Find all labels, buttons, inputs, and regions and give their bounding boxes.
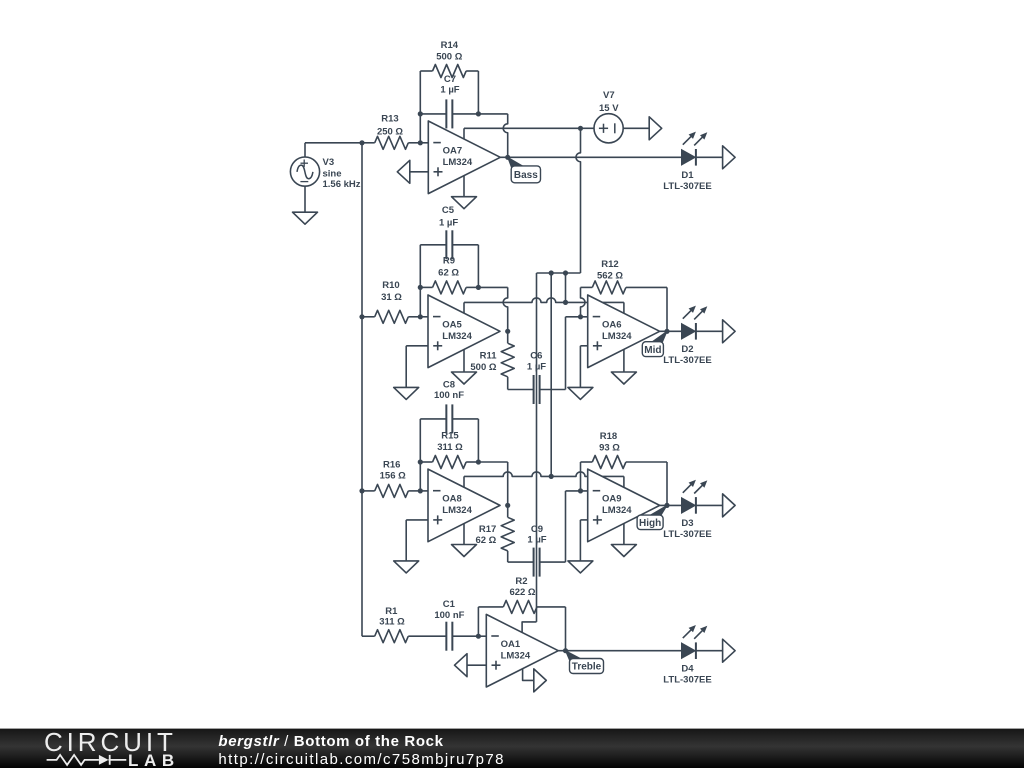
ground below OA5 <box>452 372 477 384</box>
ground at OA8 + input <box>394 561 419 573</box>
svg-text:R12: R12 <box>601 259 618 270</box>
svg-text:62 Ω: 62 Ω <box>475 535 496 546</box>
node OA1 inverting input junction <box>476 634 481 639</box>
wire OA8 V- stub <box>463 524 465 545</box>
junction R12 left at OA6 input <box>578 314 583 319</box>
flag at OA1 V- pin <box>523 669 547 692</box>
node bus/R16 <box>359 488 364 493</box>
svg-text:LAB: LAB <box>128 751 180 768</box>
junction R15 right <box>476 459 481 464</box>
svg-text:OA8: OA8 <box>442 494 462 505</box>
wire OA7 V- stub <box>463 176 465 197</box>
junction C7 left <box>418 111 423 116</box>
resistor R16 156 Ohm <box>362 459 420 497</box>
node OA9 output <box>664 503 669 508</box>
resistor R1 311 Ohm <box>362 606 446 643</box>
ground at OA9 + input <box>568 561 593 573</box>
label flag High <box>637 505 667 529</box>
ground below V3 <box>293 212 318 224</box>
wire supply rail across with junctions <box>537 270 581 275</box>
wire OA8 V+ stub <box>463 476 465 487</box>
node OA5 output <box>505 329 510 334</box>
footer title text <box>218 733 505 768</box>
LED D1 LTL-307EE <box>663 132 711 192</box>
capacitor C8 100 nF <box>420 380 478 434</box>
svg-text:D3: D3 <box>681 518 693 529</box>
wire OA1 output to LED D4 <box>558 650 681 652</box>
svg-text:LTL-307EE: LTL-307EE <box>663 181 711 192</box>
node OA5 inverting input junction <box>418 314 423 319</box>
junction R9 left <box>418 285 423 290</box>
junction R9 right <box>476 285 481 290</box>
svg-text:31 Ω: 31 Ω <box>381 292 402 303</box>
resistor R13 250 Ohm <box>362 113 420 149</box>
LED D4 LTL-307EE <box>663 625 711 685</box>
svg-text:C8: C8 <box>443 380 455 391</box>
svg-text:Treble: Treble <box>572 662 602 673</box>
wire input bus from V3 node down to R1 <box>361 143 363 636</box>
voltage source V3 sine 1.56 kHz <box>290 157 360 190</box>
CircuitLab logo <box>44 727 180 768</box>
svg-text:OA7: OA7 <box>443 146 463 157</box>
svg-text:156 Ω: 156 Ω <box>380 471 406 482</box>
wire feedback right vertical band3 <box>477 419 479 462</box>
resistor R14 500 Ohm <box>420 40 478 78</box>
wire R15 right to output vertical <box>478 461 507 463</box>
wire feedback left vertical band1 <box>419 71 421 143</box>
wire into OA8 inverting input <box>420 490 428 492</box>
wire V7 node down to band2 rail with hop over bass output <box>576 128 581 273</box>
wire supply drop to band2 <box>565 273 567 302</box>
wire supply rail band2 with hops <box>464 298 624 303</box>
svg-text:C7: C7 <box>444 74 456 85</box>
wire into OA7 inverting input <box>420 142 428 144</box>
svg-text:OA6: OA6 <box>602 320 622 331</box>
wire D2 to flag <box>696 330 723 332</box>
svg-text:100 nF: 100 nF <box>434 390 464 401</box>
op-amp U OA9 <box>588 469 660 542</box>
label flag Treble <box>566 651 604 674</box>
wire OA6 V+ stub <box>623 302 625 313</box>
capacitor C1 100 nF <box>434 599 478 651</box>
svg-text:bergstlr / Bottom of the Rock: bergstlr / Bottom of the Rock <box>218 733 443 750</box>
flag at D3 cathode <box>723 494 736 517</box>
wire into OA5 inverting input <box>420 316 428 318</box>
wire OA8 non-inverting to ground <box>406 520 428 561</box>
node OA8 output <box>505 503 510 508</box>
voltage source V7 15 V <box>581 90 650 143</box>
junction band2 supply feed <box>563 300 568 305</box>
wire feedback right vertical band2 <box>477 245 479 288</box>
resistor R9 62 Ohm <box>420 256 478 294</box>
LED D3 LTL-307EE <box>663 480 711 540</box>
svg-text:R13: R13 <box>381 113 398 124</box>
resistor R18 93 Ohm <box>581 431 668 469</box>
svg-text:OA1: OA1 <box>501 639 521 650</box>
svg-text:R15: R15 <box>441 431 459 442</box>
wire R18 left vertical <box>580 462 582 491</box>
svg-text:http://circuitlab.com/c758mbjr: http://circuitlab.com/c758mbjru7p78 <box>218 751 505 768</box>
capacitor C9 1 uF <box>508 524 566 577</box>
node OA7 inverting input junction <box>418 140 423 145</box>
wire R12 left vertical with hop over supply <box>581 287 586 316</box>
op-amp U OA5 <box>428 295 500 368</box>
resistor R15 311 Ohm <box>420 431 478 469</box>
svg-text:311 Ω: 311 Ω <box>437 442 463 453</box>
op-amp U OA6 <box>588 295 660 368</box>
flag at OA1 non-inverting input <box>455 654 487 677</box>
ground below OA9 <box>611 545 636 557</box>
wire OA9 V+ stub <box>623 476 625 487</box>
wire R2 right vertical to output <box>565 607 567 651</box>
junction band3 supply feed <box>549 474 554 479</box>
junction R15 left <box>418 459 423 464</box>
svg-text:R18: R18 <box>600 431 617 442</box>
node OA8 inverting input junction <box>418 488 423 493</box>
wire into OA6 inverting input <box>566 316 588 318</box>
wire OA7 output to LED D1 <box>500 156 681 158</box>
wire OA7 V+ stub <box>463 128 465 139</box>
wire D1 to flag <box>696 156 723 158</box>
wire supply drop to band4 <box>536 273 538 622</box>
wire feedback left vertical band3 <box>419 419 421 491</box>
op-amp U OA8 <box>428 469 500 542</box>
svg-text:R1: R1 <box>385 606 398 617</box>
flag at OA7 non-inverting input <box>397 160 428 183</box>
flag at V7 output <box>649 117 662 140</box>
resistor R17 62 Ohm <box>475 505 514 562</box>
wire OA6 output to LED D2 <box>660 330 682 332</box>
flag at D4 cathode <box>723 639 736 662</box>
svg-text:LM324: LM324 <box>442 331 472 342</box>
svg-text:250 Ω: 250 Ω <box>377 126 403 137</box>
wire output feedback vertical with hop over supply wire <box>503 114 508 157</box>
LED D2 LTL-307EE <box>663 306 711 366</box>
wire C6 to OA6 inverting input vertical <box>565 317 567 390</box>
svg-text:LM324: LM324 <box>602 331 632 342</box>
wire band4 supply step from rail to OA1 V+ <box>522 622 536 633</box>
svg-text:R16: R16 <box>383 459 400 470</box>
wire R12 right vertical to output <box>666 287 668 331</box>
svg-text:62 Ω: 62 Ω <box>438 267 459 278</box>
svg-text:500 Ω: 500 Ω <box>470 362 496 373</box>
wire OA9 output to LED D3 <box>660 504 682 506</box>
svg-text:LM324: LM324 <box>442 505 472 516</box>
svg-text:R2: R2 <box>515 576 527 587</box>
wire R9 right to output vertical <box>478 286 507 288</box>
wire R2 left vertical <box>477 607 479 636</box>
wire R18 right vertical to output <box>666 462 668 505</box>
svg-text:15 V: 15 V <box>599 103 619 114</box>
svg-text:100 nF: 100 nF <box>434 610 464 621</box>
svg-text:LM324: LM324 <box>602 505 632 516</box>
svg-text:R11: R11 <box>480 351 498 362</box>
wire feedback left vertical band2 <box>419 245 421 317</box>
svg-text:LTL-307EE: LTL-307EE <box>663 674 711 685</box>
capacitor C7 1 uF <box>420 74 478 128</box>
wire V3 bottom to ground <box>304 186 306 212</box>
wire OA5 V- stub <box>463 349 465 372</box>
svg-text:1 µF: 1 µF <box>527 535 546 546</box>
wire OA6 non-inverting to ground <box>580 346 587 388</box>
wire D3 to flag <box>696 504 723 506</box>
resistor R10 31 Ohm <box>362 280 420 323</box>
svg-text:D4: D4 <box>681 663 694 674</box>
wire OA5 feedback vertical with hop over supply <box>503 287 508 331</box>
capacitor C6 1 uF <box>508 351 566 405</box>
label flag Bass <box>508 157 541 182</box>
wire OA8 feedback vertical <box>507 462 509 505</box>
op-amp U OA1 <box>486 614 558 687</box>
svg-text:LM324: LM324 <box>501 651 531 662</box>
svg-text:High: High <box>639 518 661 529</box>
svg-text:93 Ω: 93 Ω <box>599 442 620 453</box>
ground at OA5 + input <box>394 387 419 399</box>
svg-text:Bass: Bass <box>514 170 538 181</box>
svg-text:V3: V3 <box>323 157 335 168</box>
wire supply drop to band3 <box>550 273 552 476</box>
svg-text:OA5: OA5 <box>442 320 462 331</box>
svg-text:V7: V7 <box>603 90 615 101</box>
wire supply rail band3 with hops <box>464 472 624 476</box>
svg-text:500 Ω: 500 Ω <box>436 52 462 63</box>
svg-text:R17: R17 <box>479 524 496 535</box>
wire C9 to OA9 inverting input vertical <box>565 491 567 562</box>
svg-text:1.56 kHz: 1.56 kHz <box>323 179 361 190</box>
node OA6 output <box>664 329 669 334</box>
svg-text:311 Ω: 311 Ω <box>379 616 405 627</box>
node bus/R10 <box>359 314 364 319</box>
svg-text:562 Ω: 562 Ω <box>597 271 623 282</box>
svg-text:622 Ω: 622 Ω <box>509 587 535 598</box>
svg-text:1 µF: 1 µF <box>439 217 458 228</box>
svg-text:D1: D1 <box>681 170 694 181</box>
capacitor C5 1 uF <box>420 205 478 259</box>
svg-text:R10: R10 <box>382 280 399 291</box>
op-amp U OA7 <box>428 121 500 194</box>
svg-text:OA9: OA9 <box>602 494 622 505</box>
wire OA9 V- stub <box>623 523 625 544</box>
wire into OA9 inverting input <box>566 490 588 492</box>
node junction bus/V3/R13 <box>359 140 364 145</box>
wire C7 right to output vertical <box>478 113 507 115</box>
flag at D2 cathode <box>723 320 736 343</box>
flag at D1 cathode <box>723 146 736 169</box>
svg-text:C6: C6 <box>530 351 542 362</box>
svg-text:LTL-307EE: LTL-307EE <box>663 355 711 366</box>
junction V7 node <box>578 126 583 131</box>
wire OA9 non-inverting to ground <box>580 520 587 561</box>
wire OA5 non-inverting to ground <box>406 346 428 388</box>
svg-text:LTL-307EE: LTL-307EE <box>663 529 711 540</box>
svg-text:C1: C1 <box>443 599 456 610</box>
svg-text:1 µF: 1 µF <box>440 85 459 96</box>
wire V3 top to bus <box>305 143 362 157</box>
wire supply rail band1 to V7 <box>464 127 581 129</box>
wire OA6 V- stub <box>623 349 625 372</box>
svg-text:D2: D2 <box>681 344 693 355</box>
resistor R11 500 Ohm <box>470 331 514 389</box>
node OA1 output <box>563 648 568 653</box>
label flag Mid <box>642 331 667 356</box>
wire OA5 V+ stub <box>463 302 465 313</box>
wire into OA1 inverting input <box>478 635 486 637</box>
ground at OA6 + input <box>568 387 593 399</box>
ground below OA6 <box>611 372 636 384</box>
junction R18 left at OA9 input <box>578 488 583 493</box>
wire D4 to flag <box>696 650 723 652</box>
svg-text:C5: C5 <box>442 205 455 216</box>
svg-text:R14: R14 <box>441 40 459 51</box>
svg-text:Mid: Mid <box>644 345 661 356</box>
wire feedback right vertical band1 <box>477 71 479 114</box>
junction C7 right <box>476 111 481 116</box>
ground below OA7 <box>452 197 477 209</box>
svg-text:C9: C9 <box>531 524 543 535</box>
svg-text:1 µF: 1 µF <box>527 362 546 373</box>
node OA7 output <box>505 155 510 160</box>
ground below OA8 <box>452 545 477 557</box>
resistor R2 622 Ohm <box>478 576 565 613</box>
svg-text:LM324: LM324 <box>443 157 473 168</box>
resistor R12 562 Ohm <box>581 259 668 294</box>
